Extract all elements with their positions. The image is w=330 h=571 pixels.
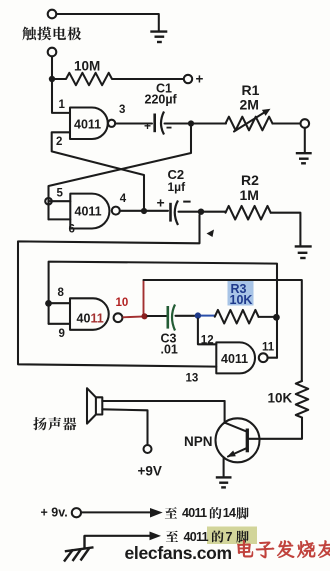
op gate U1c 4011 [70, 298, 122, 330]
node: junction dot at touch input [49, 76, 55, 82]
arrow to pin 7 [150, 532, 162, 541]
wire R2 to ground [271, 213, 301, 246]
wire C3 to node [176, 315, 195, 317]
op gate U1b 4011 [70, 194, 120, 229]
node open circle at pin5 [45, 198, 52, 205]
highlight bar [207, 527, 257, 545]
wire ground arrow [85, 535, 152, 537]
wire pin 8 [49, 302, 70, 304]
wire feedback loop to pin 13 [18, 215, 216, 367]
wire node to C3 [148, 315, 167, 317]
wire emitter to ground [223, 459, 225, 477]
wire pin2 cross-coupling from gate2 output [52, 132, 144, 208]
wire speaker to collector [102, 400, 224, 402]
ground (top right of electrode) [150, 32, 167, 42]
svg-text:+ 9v.: + 9v. [41, 506, 68, 520]
wire 10K to base [247, 418, 302, 439]
wire node to pin 12 [198, 319, 216, 345]
ground (below R2) [295, 246, 312, 258]
touch electrode terminal (top) [48, 10, 57, 19]
wire C1 to node [165, 122, 227, 124]
label 至4011的7脚 [166, 530, 249, 544]
svg-text:11: 11 [262, 342, 275, 354]
transistor Q1 NPN [216, 418, 260, 462]
svg-text:14: 14 [223, 506, 236, 520]
svg-text:NPN: NPN [184, 434, 213, 449]
svg-text:+: + [144, 119, 151, 133]
touch electrode terminal (second) [48, 48, 57, 57]
ground (below R1 terminal) [296, 153, 312, 163]
node C1/R1 [188, 120, 194, 126]
watermark 电子发烧友 [238, 541, 330, 558]
svg-text:40: 40 [77, 312, 91, 326]
wire pin 6 [49, 218, 71, 220]
label R3 highlighted [228, 281, 254, 307]
wire node down-left to gate2 inputs [49, 127, 192, 220]
svg-text:elecfans.com: elecfans.com [125, 543, 232, 563]
wire R3 right [259, 316, 274, 318]
terminal +9v rail [72, 508, 81, 517]
svg-text:2M: 2M [240, 97, 259, 113]
svg-text:10K: 10K [268, 391, 293, 406]
wire electrode down to node [51, 57, 53, 77]
op gate U1a 4011 [70, 108, 115, 140]
wire blue highlight to R3 [201, 315, 216, 317]
wire C2 to node [179, 211, 227, 213]
svg-text:4011: 4011 [182, 506, 207, 520]
wire gate3 input loop [49, 262, 277, 358]
svg-text:+: + [196, 72, 204, 87]
label 至4011的14脚 [165, 506, 249, 520]
wire gate3 output (red) [123, 280, 145, 317]
node gate2 output [141, 208, 147, 214]
resistor 10M [55, 73, 184, 85]
speaker LS1 [87, 388, 102, 423]
svg-text:12: 12 [201, 335, 214, 347]
node R3 right [273, 314, 280, 321]
wire pin 9 [49, 323, 70, 325]
svg-text:.01: .01 [161, 343, 178, 357]
svg-text:4: 4 [120, 193, 127, 205]
wire collector up [224, 401, 226, 423]
arrow to pin 14 [150, 508, 163, 518]
svg-text:4011: 4011 [184, 530, 209, 544]
ground (emitter) [216, 477, 232, 487]
terminal + supply [184, 75, 192, 83]
svg-text:+9V: +9V [138, 464, 162, 479]
node gate3 inputs [45, 300, 52, 307]
wire R1 to terminal [273, 122, 301, 124]
node C2/R2 [198, 209, 204, 215]
resistor R2 [226, 206, 271, 220]
svg-text:9: 9 [59, 328, 65, 340]
svg-text:8: 8 [58, 287, 65, 299]
svg-text:10K: 10K [230, 293, 253, 307]
svg-text:220µf: 220µf [145, 93, 178, 107]
svg-text:1M: 1M [240, 187, 259, 203]
resistor R3 [215, 310, 259, 324]
svg-text:7: 7 [226, 530, 233, 544]
svg-text:2: 2 [56, 136, 62, 148]
wire top route to 10K base resistor [144, 280, 302, 381]
label 扬声器 [33, 417, 76, 430]
svg-text:4011: 4011 [221, 352, 248, 366]
node C3/R3/pin12 (blue) [195, 312, 201, 318]
svg-text:3: 3 [119, 104, 125, 116]
svg-text:10: 10 [116, 297, 129, 309]
wire terminal to ground [304, 128, 306, 153]
capacitor C3 [168, 305, 175, 331]
svg-text:1µf: 1µf [168, 180, 187, 194]
arrow marker on loop [207, 230, 215, 238]
wire gate4 output up [268, 357, 277, 359]
svg-text:11: 11 [91, 312, 104, 326]
resistor 10K vertical [296, 381, 308, 418]
svg-text:4011: 4011 [74, 118, 101, 132]
svg-text:4011: 4011 [75, 205, 102, 219]
svg-text:1: 1 [59, 99, 66, 111]
wire node to pin 1 [52, 79, 70, 113]
wire gate2 output to C2 [120, 210, 168, 212]
label 触摸电极 [22, 27, 81, 41]
op gate U1d 4011 [216, 342, 267, 373]
capacitor C1 [144, 112, 172, 135]
svg-text:5: 5 [57, 188, 64, 200]
svg-text:+: + [157, 195, 165, 211]
wire gate1 output to C1 [115, 122, 152, 124]
svg-text:13: 13 [186, 373, 199, 385]
wire +9v arrow [82, 511, 152, 513]
terminal +9V [144, 445, 152, 453]
node gate3 output (red) [141, 313, 147, 319]
wire top electrode to ground [57, 14, 159, 31]
ground (bottom rail) [64, 536, 94, 562]
wire speaker to +9V [102, 409, 147, 444]
terminal right of R1 [301, 119, 310, 128]
resistor R1 (rheostat) [226, 109, 273, 132]
wire pin 5 [49, 200, 71, 202]
capacitor C2 [157, 195, 191, 226]
svg-text:10M: 10M [74, 59, 100, 74]
svg-text:R2: R2 [241, 172, 259, 188]
